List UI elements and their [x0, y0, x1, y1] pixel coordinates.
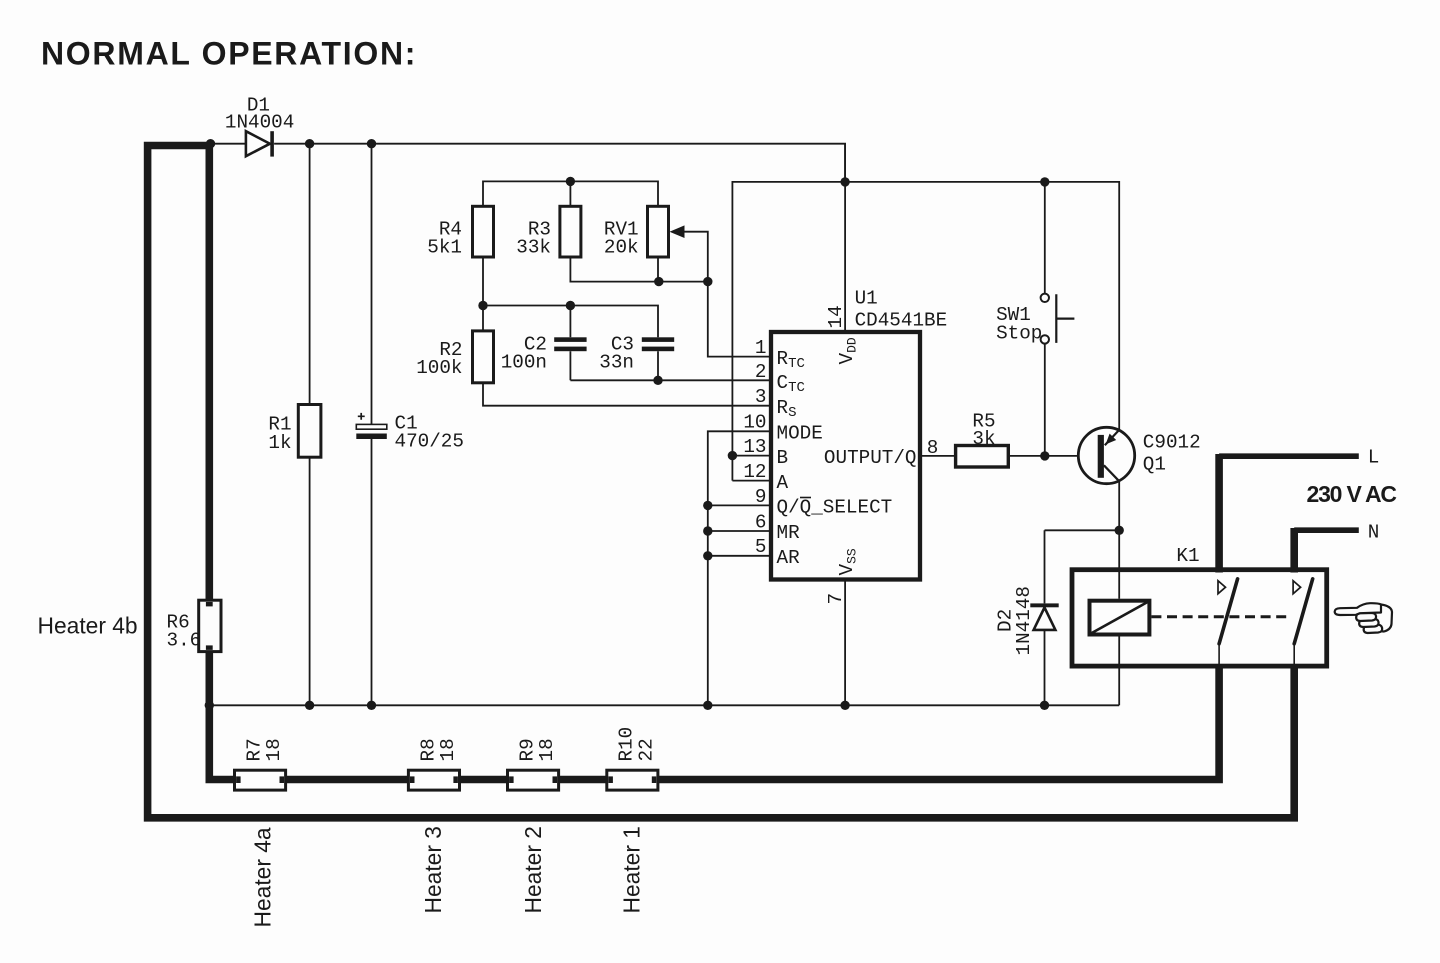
svg-text:R10: R10 — [616, 727, 638, 762]
svg-text:AR: AR — [777, 547, 801, 569]
svg-text:13: 13 — [743, 436, 766, 458]
svg-text:14: 14 — [825, 305, 847, 328]
svg-text:Stop: Stop — [996, 323, 1042, 345]
svg-text:3: 3 — [755, 386, 767, 408]
svg-text:2: 2 — [755, 361, 767, 383]
svg-text:N: N — [1368, 522, 1380, 544]
svg-text:Heater 1: Heater 1 — [619, 826, 645, 913]
svg-text:Heater 2: Heater 2 — [520, 826, 546, 913]
svg-text:10: 10 — [743, 412, 766, 434]
svg-text:18: 18 — [437, 738, 459, 761]
svg-text:1: 1 — [755, 337, 767, 359]
svg-text:MODE: MODE — [777, 423, 823, 445]
svg-text:NORMAL OPERATION:: NORMAL OPERATION: — [41, 36, 417, 72]
svg-text:L: L — [1368, 447, 1380, 469]
svg-text:C9012: C9012 — [1143, 432, 1201, 454]
svg-text:1k: 1k — [268, 432, 291, 454]
svg-text:470/25: 470/25 — [395, 431, 464, 453]
svg-text:230 V AC: 230 V AC — [1307, 481, 1397, 507]
svg-text:8: 8 — [927, 437, 939, 459]
svg-text:CD4541BE: CD4541BE — [855, 310, 948, 332]
svg-text:6: 6 — [755, 512, 767, 534]
svg-text:18: 18 — [536, 738, 558, 761]
svg-text:3.6: 3.6 — [167, 630, 202, 652]
svg-text:A: A — [777, 472, 789, 494]
svg-text:5k1: 5k1 — [427, 237, 462, 259]
svg-text:Q/Q_SELECT: Q/Q_SELECT — [777, 497, 893, 519]
svg-text:OUTPUT/Q: OUTPUT/Q — [824, 447, 917, 469]
svg-text:1N4148: 1N4148 — [1013, 586, 1035, 655]
svg-text:1N4004: 1N4004 — [225, 112, 294, 134]
svg-text:Heater 3: Heater 3 — [420, 826, 446, 913]
svg-text:MR: MR — [777, 522, 801, 544]
svg-text:U1: U1 — [855, 288, 878, 310]
svg-text:33n: 33n — [599, 352, 634, 374]
svg-text:3k: 3k — [972, 428, 995, 450]
svg-text:Q1: Q1 — [1143, 454, 1166, 476]
svg-text:B: B — [777, 447, 789, 469]
svg-text:33k: 33k — [516, 237, 551, 259]
svg-text:100k: 100k — [416, 357, 462, 379]
svg-text:18: 18 — [263, 738, 285, 761]
svg-text:Heater 4a: Heater 4a — [250, 827, 276, 927]
svg-text:100n: 100n — [501, 352, 547, 374]
svg-text:9: 9 — [755, 486, 767, 508]
svg-text:K1: K1 — [1176, 545, 1199, 567]
svg-text:5: 5 — [755, 536, 767, 558]
svg-text:20k: 20k — [604, 237, 639, 259]
svg-text:Heater 4b: Heater 4b — [38, 613, 138, 639]
svg-text:12: 12 — [743, 461, 766, 483]
svg-text:22: 22 — [635, 738, 657, 761]
svg-text:7: 7 — [825, 593, 847, 605]
